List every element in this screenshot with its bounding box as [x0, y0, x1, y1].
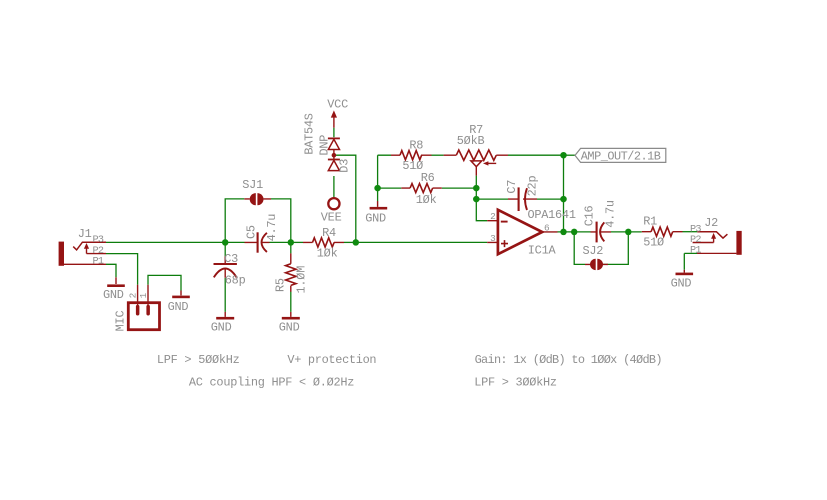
wire J1 P3 to node A — [106, 241, 225, 243]
ground MIC pin1 — [180, 291, 182, 296]
wire C16 to R1 — [611, 231, 642, 233]
svg-text:GND: GND — [279, 321, 300, 335]
solder jumper SJ1 leads — [244, 198, 271, 200]
svg-text:J2: J2 — [704, 216, 718, 230]
junction SJ2 right node — [625, 229, 632, 236]
wire between R8 and R7 — [432, 154, 444, 156]
svg-text:GND: GND — [365, 212, 386, 226]
svg-text:22p: 22p — [525, 176, 539, 197]
svg-text:5ØkB: 5ØkB — [457, 134, 485, 148]
capacitor C7 curved plate — [525, 188, 527, 210]
wire SJ2 bypass loop — [574, 232, 628, 265]
svg-text:SJ2: SJ2 — [583, 244, 604, 258]
svg-text:SJ1: SJ1 — [242, 178, 263, 192]
wire MIC pin1 to ground — [148, 275, 181, 290]
wire R7 wiper to node F — [475, 176, 477, 200]
svg-text:6: 6 — [544, 222, 550, 233]
junction node C — [353, 239, 360, 246]
svg-text:C16: C16 — [583, 205, 597, 226]
wire node F to op-amp pin2 — [476, 199, 487, 221]
svg-text:V+ protection: V+ protection — [287, 353, 376, 367]
svg-text:P1: P1 — [690, 245, 701, 256]
svg-text:AMP_OUT/2.1B: AMP_OUT/2.1B — [581, 150, 661, 164]
microphone MIC pin 2 pad — [136, 305, 140, 316]
resistor R6 — [401, 187, 442, 189]
wire R6 to node F — [442, 187, 477, 189]
svg-text:P3: P3 — [93, 235, 104, 246]
wire node F to C7 — [476, 198, 508, 200]
junction SJ2 left node — [571, 229, 578, 236]
capacitor C7 leads — [508, 198, 537, 200]
microphone MIC pin leads — [138, 285, 148, 306]
connector J2 jack sleeve bar — [736, 231, 741, 255]
junction node A — [222, 239, 229, 246]
wire R1 to J2 P3 — [683, 231, 698, 233]
capacitor C5 straight plate — [257, 232, 259, 252]
svg-text:MIC: MIC — [114, 311, 128, 332]
potentiometer R7 wiper — [471, 161, 482, 167]
svg-text:J1: J1 — [78, 227, 92, 241]
resistor R4 — [303, 241, 344, 243]
connector J1 ring contact P2 arrow — [87, 248, 107, 253]
wire node D to R6 — [378, 187, 402, 189]
svg-text:R8: R8 — [409, 138, 423, 152]
wire SJ1 bypass loop — [225, 199, 291, 243]
svg-text:R6: R6 — [421, 171, 435, 185]
wire node C to op-amp pin3 — [356, 241, 487, 243]
svg-text:Gain: 1x (ØdB) to 1ØØx (4ØdB): Gain: 1x (ØdB) to 1ØØx (4ØdB) — [475, 353, 662, 367]
svg-text:OPA1641: OPA1641 — [528, 208, 576, 222]
svg-text:1Øk: 1Øk — [416, 193, 437, 207]
svg-text:AC coupling HPF < Ø.Ø2Hz: AC coupling HPF < Ø.Ø2Hz — [189, 376, 354, 390]
svg-text:R5: R5 — [273, 278, 287, 292]
solder jumper SJ1 right pad — [257, 193, 263, 205]
solder jumper SJ1 left pad — [250, 193, 256, 205]
op-amp IC1A — [498, 210, 542, 254]
wire J1 P2 to MIC pin2 — [106, 254, 138, 285]
svg-text:P1: P1 — [93, 256, 104, 267]
diode D3 mid lead — [333, 150, 335, 160]
wire C5 to node B — [270, 241, 291, 243]
svg-text:GND: GND — [103, 288, 124, 302]
wire op-amp output to C16 — [558, 231, 591, 233]
svg-text:C5: C5 — [245, 225, 259, 239]
connector J2 tip contact P3 — [697, 232, 727, 238]
capacitor C16 curved plate — [600, 222, 604, 241]
svg-text:68p: 68p — [225, 274, 246, 288]
svg-text:GND: GND — [168, 300, 189, 314]
svg-text:DNP: DNP — [318, 135, 332, 156]
ground C3 — [224, 312, 226, 317]
wire C7 to node E column — [537, 198, 564, 200]
supply VCC arrow — [331, 110, 337, 117]
wire J1 P1 to ground — [106, 264, 116, 277]
capacitor C7 straight plate — [518, 187, 520, 211]
svg-text:VEE: VEE — [321, 210, 342, 224]
wire D3 to VEE — [333, 176, 335, 197]
wire C3 to ground — [224, 278, 226, 312]
junction node F — [473, 196, 480, 203]
ground R8 R6 node — [377, 201, 379, 207]
svg-text:LPF > 5ØØkHz: LPF > 5ØØkHz — [157, 353, 240, 367]
svg-text:P3: P3 — [690, 224, 701, 235]
junction node E mid — [560, 196, 567, 203]
junction wiper node — [473, 185, 480, 192]
wire node A to C3 — [224, 242, 226, 256]
connector J2 ring contact P2 arrow — [693, 238, 714, 242]
wire J2 sleeve to ground — [684, 253, 697, 269]
ground R5 — [290, 312, 292, 317]
svg-text:2: 2 — [127, 293, 138, 298]
capacitor C3 top plate — [214, 263, 237, 265]
net flag AMP_OUT/2.1B — [575, 148, 666, 162]
wire VCC arrow to D3 — [333, 128, 335, 138]
svg-text:4.7u: 4.7u — [604, 200, 618, 228]
svg-text:1: 1 — [138, 292, 149, 298]
resistor R1 — [642, 231, 683, 233]
solder jumper SJ2 left pad — [590, 259, 596, 270]
svg-text:2: 2 — [490, 211, 495, 222]
capacitor C16 straight plate — [596, 222, 598, 243]
capacitor C3 curved plate — [214, 269, 237, 278]
diode D3 upper half — [328, 137, 340, 139]
ground J1 P1 — [115, 277, 117, 284]
wire R4 to node C — [344, 241, 356, 243]
svg-text:D3: D3 — [338, 159, 352, 173]
microphone MIC pin 1 pad — [146, 305, 150, 316]
junction output node — [560, 229, 567, 236]
connector J1 tip contact P3 — [73, 242, 106, 250]
diode D3 lower half — [328, 159, 340, 161]
svg-text:GND: GND — [671, 277, 692, 291]
svg-text:P2: P2 — [690, 235, 701, 246]
wire node E to AMP_OUT flag — [564, 154, 576, 156]
junction node B — [288, 239, 295, 246]
supply VEE circle — [328, 198, 339, 209]
svg-text:GND: GND — [211, 321, 232, 335]
resistor R8 — [391, 154, 432, 156]
svg-text:VCC: VCC — [327, 98, 348, 112]
solder jumper SJ2 leads — [585, 263, 608, 265]
wire R8 left to node D — [378, 155, 391, 188]
svg-text:R1: R1 — [643, 214, 657, 228]
connector J1 sleeve lead P1 — [64, 263, 106, 265]
connector J2 sleeve lead P1 — [697, 252, 736, 254]
potentiometer R7 — [444, 154, 508, 156]
svg-text:LPF > 3ØØkHz: LPF > 3ØØkHz — [474, 376, 557, 390]
svg-text:C7: C7 — [505, 180, 519, 194]
wire node E feedback column — [563, 155, 565, 232]
microphone MIC body — [128, 303, 159, 330]
capacitor C16 leads — [591, 231, 612, 233]
svg-text:51Ø: 51Ø — [643, 235, 664, 249]
wire node B to R5 — [290, 242, 292, 253]
capacitor C5 leads — [245, 241, 270, 243]
resistor R5 — [290, 253, 292, 291]
connector J1 jack sleeve bar — [59, 242, 64, 266]
ground J2 — [683, 270, 685, 273]
svg-text:IC1A: IC1A — [528, 243, 557, 257]
svg-text:R4: R4 — [322, 226, 336, 240]
wire diode mid node to node C — [334, 155, 356, 242]
svg-text:BAT54S: BAT54S — [303, 113, 317, 154]
wire node D to ground — [377, 188, 379, 201]
svg-text:1Øk: 1Øk — [317, 246, 338, 260]
junction diode mid node — [332, 153, 337, 158]
op-amp pin leads — [487, 221, 557, 243]
junction node D — [374, 185, 381, 192]
capacitor C5 curved plate — [262, 233, 267, 252]
op-amp minus sign — [501, 221, 508, 223]
svg-text:4.7u: 4.7u — [265, 214, 279, 242]
junction node E top — [560, 152, 567, 159]
wire node A to C5 — [225, 241, 244, 243]
svg-text:C3: C3 — [224, 252, 238, 266]
wire R5 to ground — [290, 292, 292, 312]
op-amp plus sign — [501, 240, 508, 247]
svg-text:3: 3 — [490, 233, 496, 244]
wire node B to R4 — [291, 241, 303, 243]
capacitor C3 leads — [224, 256, 226, 277]
wire R7 to node E — [508, 154, 564, 156]
svg-text:1.ØM: 1.ØM — [294, 266, 308, 294]
solder jumper SJ2 right pad — [597, 259, 603, 270]
